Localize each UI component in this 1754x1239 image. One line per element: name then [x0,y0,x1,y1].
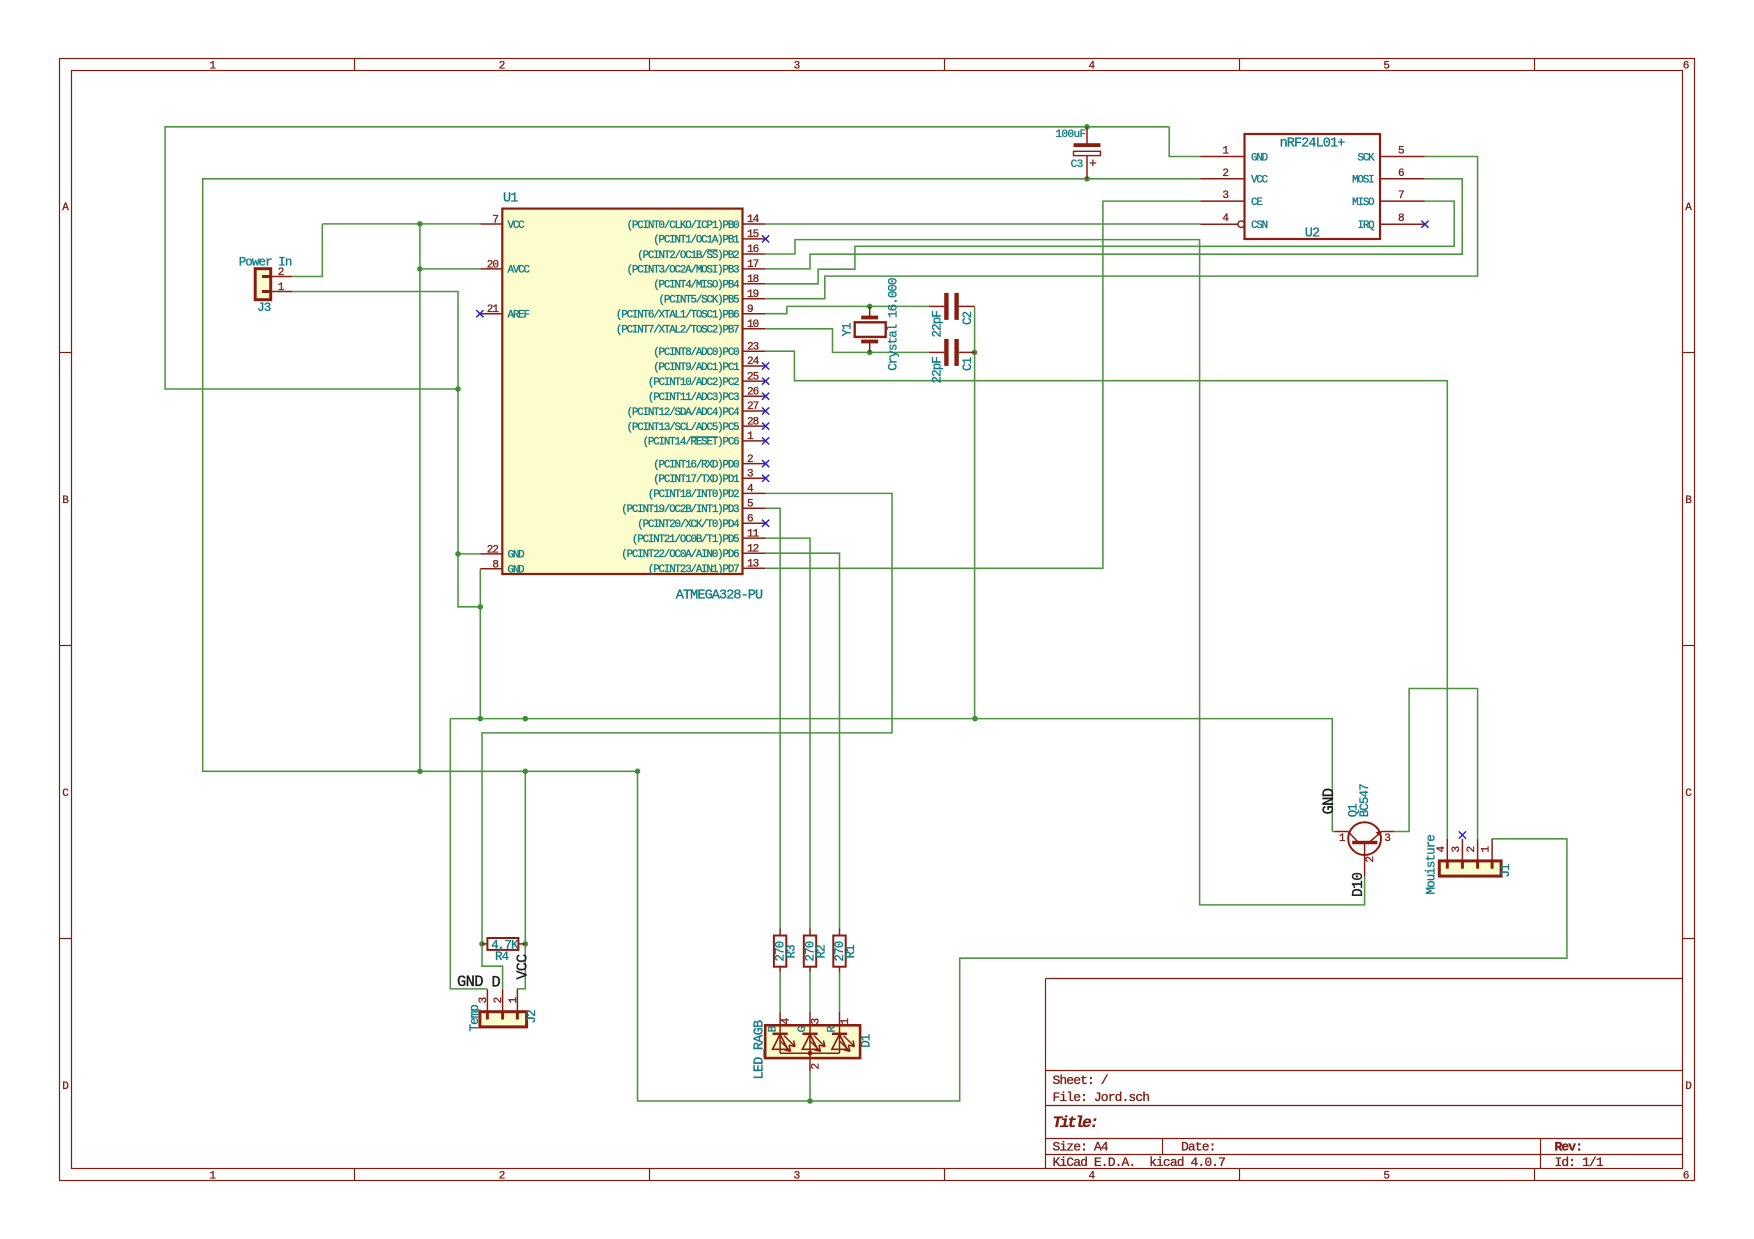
svg-text:(PCINT18/INT0)PD2: (PCINT18/INT0)PD2 [648,489,739,501]
svg-text:22pF: 22pF [931,311,945,338]
svg-text:2: 2 [1466,847,1478,853]
svg-text:(PCINT12/SDA/ADC4)PC4: (PCINT12/SDA/ADC4)PC4 [627,407,740,419]
svg-text:28: 28 [747,416,759,428]
svg-text:5: 5 [1383,61,1390,73]
svg-text:B: B [1685,495,1692,507]
svg-text:1: 1 [209,1171,216,1183]
svg-text:C: C [1685,788,1692,800]
svg-text:Size: A4: Size: A4 [1053,1140,1109,1155]
svg-text:VCC: VCC [508,220,526,232]
svg-text:17: 17 [747,259,759,271]
svg-text:8: 8 [1398,213,1404,225]
svg-text:3: 3 [1384,833,1390,845]
svg-text:2: 2 [493,997,505,1003]
svg-text:(PCINT17/TXD)PD1: (PCINT17/TXD)PD1 [653,474,739,486]
svg-text:GND: GND [508,550,525,562]
svg-text:Temp: Temp [468,1005,482,1032]
svg-text:2: 2 [747,454,753,466]
svg-text:(PCINT9/ADC1)PC1: (PCINT9/ADC1)PC1 [653,362,739,374]
svg-text:AREF: AREF [508,310,530,322]
svg-text:J1: J1 [1499,864,1513,878]
svg-text:R1: R1 [844,945,858,959]
svg-text:CE: CE [1251,197,1262,209]
svg-text:VCC: VCC [1251,175,1269,187]
svg-text:CSN: CSN [1251,220,1268,232]
svg-text:20: 20 [487,259,499,271]
svg-text:SCK: SCK [1358,152,1376,164]
svg-text:D: D [62,1081,69,1093]
svg-text:10: 10 [747,319,759,331]
svg-text:BC547: BC547 [1358,784,1372,817]
svg-text:26: 26 [747,386,759,398]
svg-text:23: 23 [747,341,759,353]
svg-text:27: 27 [747,401,759,413]
svg-text:19: 19 [747,289,759,301]
svg-text:KiCad E.D.A. kicad 4.0.7: KiCad E.D.A. kicad 4.0.7 [1053,1155,1226,1170]
svg-text:5: 5 [1398,146,1404,158]
svg-text:D1: D1 [859,1034,873,1048]
svg-text:4: 4 [1088,61,1095,73]
svg-text:(PCINT4/MISO)PB4: (PCINT4/MISO)PB4 [653,280,739,292]
svg-text:18: 18 [747,274,759,286]
svg-text:Rev:: Rev: [1555,1140,1583,1155]
svg-text:(PCINT13/SCL/ADC5)PC5: (PCINT13/SCL/ADC5)PC5 [627,422,740,434]
svg-text:C1: C1 [961,357,975,371]
svg-text:15: 15 [747,229,759,241]
svg-text:14: 14 [747,214,760,226]
svg-text:3: 3 [794,1171,801,1183]
svg-text:U1: U1 [503,192,518,207]
svg-text:MISO: MISO [1352,197,1374,209]
svg-text:R4: R4 [495,950,509,964]
svg-text:3: 3 [478,997,490,1003]
svg-text:nRF24L01+: nRF24L01+ [1280,137,1346,152]
svg-text:(PCINT21/OC0B/T1)PD5: (PCINT21/OC0B/T1)PD5 [632,534,739,546]
svg-text:(PCINT2/OC1B/SS)PB2: (PCINT2/OC1B/SS)PB2 [637,250,739,262]
svg-text:(PCINT6/XTAL1/TOSC1)PB6: (PCINT6/XTAL1/TOSC1)PB6 [616,310,739,322]
svg-text:16: 16 [747,244,759,256]
svg-text:G: G [797,1026,809,1032]
svg-text:(PCINT7/XTAL2/TOSC2)PB7: (PCINT7/XTAL2/TOSC2)PB7 [616,325,739,337]
svg-text:AVCC: AVCC [508,265,531,277]
svg-text:U2: U2 [1305,227,1320,242]
svg-text:3: 3 [1222,190,1228,202]
svg-text:(PCINT22/OC0A/AIN0)PD6: (PCINT22/OC0A/AIN0)PD6 [621,549,739,561]
svg-text:2: 2 [499,1171,506,1183]
svg-text:13: 13 [747,559,759,571]
svg-text:B: B [62,495,69,507]
svg-text:Crystal 16.000: Crystal 16.000 [887,278,901,371]
svg-text:LED_RAGB: LED_RAGB [753,1020,768,1079]
svg-text:21: 21 [487,304,500,316]
svg-text:J3: J3 [257,301,271,315]
svg-text:(PCINT3/OC2A/MOSI)PB3: (PCINT3/OC2A/MOSI)PB3 [627,265,740,277]
svg-text:(PCINT20/XCK/T0)PD4: (PCINT20/XCK/T0)PD4 [637,519,739,531]
svg-text:6: 6 [1398,168,1404,180]
svg-text:File: Jord.sch: File: Jord.sch [1053,1090,1150,1105]
svg-text:8: 8 [492,559,498,571]
svg-text:3: 3 [1451,847,1463,853]
svg-text:2: 2 [1222,168,1228,180]
svg-text:3: 3 [794,61,801,73]
svg-text:C2: C2 [961,311,975,325]
svg-text:R2: R2 [814,945,828,959]
svg-text:22pF: 22pF [931,357,945,384]
svg-text:GND: GND [1320,788,1338,814]
svg-text:3: 3 [810,1019,822,1025]
svg-text:Power In: Power In [239,255,292,269]
svg-text:(PCINT11/ADC3)PC3: (PCINT11/ADC3)PC3 [648,392,739,404]
svg-text:ATMEGA328-PU: ATMEGA328-PU [676,589,763,604]
svg-text:Id: 1/1: Id: 1/1 [1555,1155,1604,1170]
svg-text:+: + [1089,156,1097,171]
svg-text:R3: R3 [784,945,798,959]
svg-text:(PCINT10/ADC2)PC2: (PCINT10/ADC2)PC2 [648,377,739,389]
svg-text:5: 5 [747,499,753,511]
svg-text:J2: J2 [525,1010,539,1024]
svg-text:2: 2 [1365,857,1377,863]
svg-text:9: 9 [747,304,753,316]
svg-text:Mouisture: Mouisture [1425,835,1439,895]
svg-text:7: 7 [1398,190,1404,202]
svg-text:2: 2 [810,1064,822,1070]
svg-text:100uF: 100uF [1055,129,1085,141]
svg-text:22: 22 [487,544,499,556]
svg-text:6: 6 [1683,61,1690,73]
svg-text:A: A [62,202,69,214]
svg-text:C3: C3 [1071,159,1083,171]
svg-text:D: D [1685,1081,1692,1093]
svg-text:C: C [62,788,69,800]
svg-text:(PCINT14/RESET)PC6: (PCINT14/RESET)PC6 [643,437,740,449]
svg-text:5: 5 [1383,1171,1390,1183]
svg-text:(PCINT5/SCK)PB5: (PCINT5/SCK)PB5 [659,295,740,307]
svg-text:Date:: Date: [1181,1140,1216,1155]
svg-text:Title:: Title: [1053,1114,1097,1132]
svg-text:25: 25 [747,371,759,383]
svg-text:GND: GND [457,973,483,991]
svg-text:3: 3 [747,469,753,481]
svg-text:(PCINT8/ADC0)PC0: (PCINT8/ADC0)PC0 [653,347,739,359]
svg-text:Sheet: /: Sheet: / [1053,1073,1109,1088]
svg-text:Y1: Y1 [841,323,855,337]
svg-text:VCC: VCC [515,954,532,980]
svg-text:7: 7 [492,215,498,227]
svg-text:2: 2 [499,61,506,73]
svg-text:24: 24 [747,356,760,368]
svg-text:12: 12 [747,543,759,555]
svg-text:(PCINT16/RXD)PD0: (PCINT16/RXD)PD0 [653,459,739,471]
svg-text:6: 6 [747,514,753,526]
svg-text:GND: GND [1251,152,1268,164]
svg-text:1: 1 [209,61,216,73]
svg-text:11: 11 [747,528,760,540]
svg-text:A: A [1685,202,1692,214]
svg-text:(PCINT23/AIN1)PD7: (PCINT23/AIN1)PD7 [648,564,739,576]
svg-text:GND: GND [508,565,525,577]
svg-text:6: 6 [1683,1171,1690,1183]
svg-text:(PCINT0/CLKO/ICP1)PB0: (PCINT0/CLKO/ICP1)PB0 [627,220,740,232]
svg-text:IRQ: IRQ [1358,220,1375,232]
svg-text:4: 4 [1088,1171,1095,1183]
svg-text:(PCINT1/OC1A)PB1: (PCINT1/OC1A)PB1 [653,235,739,247]
svg-text:D: D [491,974,500,992]
svg-text:D10: D10 [1351,873,1367,897]
svg-text:MOSI: MOSI [1352,175,1374,187]
svg-text:(PCINT19/OC2B/INT1)PD3: (PCINT19/OC2B/INT1)PD3 [621,504,739,516]
